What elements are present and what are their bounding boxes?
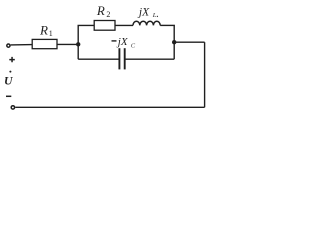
svg-text:C: C (131, 42, 136, 49)
wire node A to capacitor (78, 58, 118, 60)
label minus of -jXC (112, 40, 117, 42)
wire R2 to inductor (115, 24, 133, 26)
svg-text:1: 1 (49, 29, 53, 38)
node B junction dot (172, 40, 176, 44)
svg-text:U: U (4, 73, 14, 87)
terminal - (bottom-left open circle) (11, 106, 14, 109)
wire node A to R2 (78, 24, 95, 26)
wire right riser node B (173, 25, 175, 59)
svg-text:jX: jX (137, 7, 150, 19)
inductor jXL (133, 21, 160, 25)
terminal + (top-left open circle) (7, 44, 10, 47)
resistor R2 (94, 21, 115, 31)
wire capacitor to node B (126, 58, 175, 60)
wire right vertical (204, 42, 206, 107)
svg-text:L: L (152, 12, 157, 19)
capacitor -jXC plates (118, 48, 120, 69)
svg-text:2: 2 (106, 10, 110, 19)
wire from + terminal to R1 (11, 44, 33, 46)
wire node B to right side (174, 41, 204, 43)
svg-text:R: R (96, 3, 105, 18)
resistor R1 (32, 39, 57, 48)
wire left riser node A (77, 25, 79, 59)
node A junction dot (76, 42, 80, 46)
svg-text:jX: jX (116, 36, 129, 48)
wire bottom return (15, 106, 204, 108)
wire R1 to node A (57, 43, 78, 45)
wire inductor to node B (160, 24, 175, 26)
svg-text:R: R (39, 22, 48, 37)
label + polarity (9, 57, 15, 62)
label - polarity (6, 95, 11, 97)
